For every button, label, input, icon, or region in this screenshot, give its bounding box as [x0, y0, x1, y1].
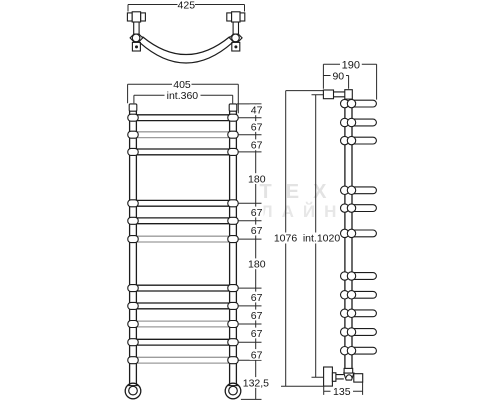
svg-text:67: 67 — [251, 225, 263, 237]
svg-text:67: 67 — [251, 207, 263, 219]
extension line from bar 6 — [238, 238, 261, 240]
side view bar 5 joint balls — [341, 204, 349, 212]
side view bar 3 (capsule) — [350, 137, 376, 144]
front view bar 1 right joint bulge — [228, 114, 238, 121]
side view valve packing nut — [344, 368, 353, 373]
svg-text:190: 190 — [342, 59, 360, 71]
front view bar 7 right joint bulge — [228, 285, 238, 292]
extension line from bar 9 — [238, 323, 261, 325]
front view left rail top cap — [129, 104, 137, 111]
top view hex union nut at x=235.8 — [230, 34, 243, 42]
svg-text:67: 67 — [251, 349, 263, 361]
front view right vertical rail — [230, 111, 237, 384]
side view valve flange — [332, 373, 336, 382]
top view wall plate at x=136.4 — [132, 42, 140, 51]
front view bar 11 left joint bulge — [128, 357, 138, 364]
extension line from bottom of rails — [241, 398, 262, 400]
svg-text:47: 47 — [251, 105, 263, 117]
dimension 135 line — [324, 382, 363, 395]
front view right rail top cap — [229, 104, 237, 111]
side view bar 7 joint balls — [341, 272, 349, 280]
dimension int.1020 text — [304, 233, 341, 244]
top view wall plate at x=235.8 — [232, 42, 240, 51]
front view bar 9 left joint bulge — [128, 321, 138, 328]
dimension label 67 — [250, 292, 264, 303]
side view bar 10 (capsule) — [350, 329, 376, 336]
side view bar 6 joint balls — [341, 229, 349, 237]
dimension 90 line — [323, 76, 348, 89]
side view bar 2 (capsule) — [350, 119, 376, 126]
side view bar 5 (capsule) — [350, 205, 376, 212]
svg-text:67: 67 — [251, 121, 263, 133]
svg-text:67: 67 — [251, 310, 263, 322]
extension line from rail top — [237, 103, 262, 105]
side view bar 4 joint balls — [341, 186, 349, 194]
svg-text:int.360: int.360 — [167, 90, 199, 102]
dimension 405 line — [128, 84, 239, 113]
dimension 1076 vertical line — [281, 91, 323, 387]
dimension label 67 — [250, 349, 264, 360]
extension line from bar 7 — [238, 287, 261, 289]
side view bar 9 (capsule) — [350, 310, 376, 317]
top view hex union nut at x=136.4 — [130, 34, 143, 42]
front view bar 10 left joint bulge — [128, 339, 138, 346]
dimension 190 line — [323, 64, 376, 99]
side view bar 9 joint balls — [341, 309, 349, 317]
dimension label 67 — [250, 310, 264, 321]
side view valve cone body — [344, 373, 354, 380]
side view top wall fitting block — [323, 90, 333, 99]
front view towel bar 11 — [134, 357, 232, 363]
dimension label 67 — [250, 328, 264, 339]
side view valve dome — [346, 375, 352, 378]
front view towel bar 7 — [134, 285, 232, 291]
top view stem pipe at x=136.4 — [134, 22, 139, 34]
side view valve wall block — [324, 367, 333, 386]
front view left vertical rail — [130, 111, 137, 384]
extension line from bar 5 — [238, 220, 261, 222]
svg-text:int.1020: int.1020 — [303, 233, 341, 245]
top view wall T-fitting at x=136.4 — [127, 12, 145, 22]
side view bar 6 (capsule) — [350, 230, 376, 237]
side view bar 1 (capsule) — [350, 100, 376, 107]
front view right dimension chain vertical line — [255, 104, 257, 400]
extension line from bar 8 — [238, 305, 261, 307]
side view top connecting pipe — [334, 92, 345, 97]
front view bar 4 left joint bulge — [128, 200, 138, 207]
front view towel bar 9 — [134, 321, 232, 327]
front view right bottom pipe outlet circle — [225, 383, 241, 399]
extension line from bar 3 — [238, 151, 261, 153]
extension line from bar 2 — [238, 134, 261, 136]
front view bar 5 left joint bulge — [128, 217, 138, 224]
svg-text:180: 180 — [248, 259, 266, 271]
dimension 1076 text — [274, 233, 298, 244]
dimension label 180 — [247, 258, 266, 269]
side view bar 2 joint balls — [341, 118, 349, 126]
svg-text:90: 90 — [332, 70, 344, 82]
side view bar 11 (capsule) — [350, 347, 376, 354]
extension line from bar 4 — [238, 202, 261, 204]
dimension 425 line — [128, 5, 245, 12]
side view bar 1 joint balls — [341, 99, 349, 107]
front view towel bar 6 — [134, 236, 232, 242]
dimension int.360 line — [134, 95, 233, 103]
front view bar 6 right joint bulge — [228, 236, 238, 243]
svg-text:67: 67 — [251, 292, 263, 304]
dimension label 132,5 — [243, 377, 269, 388]
dimension label 180 — [247, 173, 266, 184]
front view bar 7 left joint bulge — [128, 285, 138, 292]
front view bar 10 right joint bulge — [228, 339, 238, 346]
front view bar 8 right joint bulge — [228, 302, 238, 309]
dimension int.1020 vertical line — [312, 95, 324, 378]
side view bar 3 joint balls — [341, 136, 349, 144]
side view wall reference line — [286, 90, 324, 92]
side view bar 8 joint balls — [341, 291, 349, 299]
svg-text:67: 67 — [251, 328, 263, 340]
front view bar 6 left joint bulge — [128, 236, 138, 243]
side view bar 8 (capsule) — [350, 291, 376, 298]
front view towel bar 8 — [134, 303, 232, 309]
svg-text:67: 67 — [251, 140, 263, 152]
front view bar 2 right joint bulge — [228, 131, 238, 138]
front view bar 5 right joint bulge — [228, 217, 238, 224]
front view bar 8 left joint bulge — [128, 302, 138, 309]
side view valve outlet body — [354, 374, 363, 382]
dimension label 67 — [250, 139, 264, 150]
svg-text:135: 135 — [333, 386, 351, 398]
front view bar 9 right joint bulge — [228, 321, 238, 328]
svg-text:ТЕХ: ТЕХ — [260, 181, 341, 203]
svg-text:1076: 1076 — [274, 233, 298, 245]
dimension label 47 — [250, 104, 264, 115]
front view towel bar 5 — [134, 218, 232, 224]
svg-text:ЛАЙН: ЛАЙН — [261, 202, 346, 221]
front view towel bar 3 — [134, 149, 232, 155]
side view valve pipe — [336, 375, 344, 379]
side view vertical rail — [345, 99, 352, 368]
dimension label 67 — [250, 225, 264, 236]
extension line from bar 1 — [238, 117, 261, 119]
front view bar 11 right joint bulge — [228, 357, 238, 364]
front view towel bar 2 — [134, 132, 232, 138]
top view wall T-fitting at x=235.8 — [227, 12, 245, 22]
front view bar 1 left joint bulge — [128, 114, 138, 121]
side view bar 10 joint balls — [341, 328, 349, 336]
extension line from bar 11 — [238, 359, 261, 361]
front view towel bar 1 — [134, 115, 232, 121]
dimension label 67 — [250, 121, 264, 132]
side view elbow block — [345, 90, 353, 99]
dimension label 67 — [250, 207, 264, 218]
front view towel bar 10 — [134, 339, 232, 345]
front view bar 3 left joint bulge — [128, 148, 138, 155]
front view bar 2 left joint bulge — [128, 131, 138, 138]
front view bar 4 right joint bulge — [228, 200, 238, 207]
front view left bottom pipe outlet circle — [125, 383, 141, 399]
front view towel bar 4 — [134, 200, 232, 206]
top view curved towel bar (arc) — [140, 37, 233, 63]
side view bar 4 (capsule) — [350, 187, 376, 194]
svg-text:180: 180 — [248, 173, 266, 185]
extension line from bar 10 — [238, 341, 261, 343]
side view bar 11 joint balls — [341, 347, 349, 355]
side view bar 7 (capsule) — [350, 273, 376, 280]
svg-text:425: 425 — [178, 0, 196, 11]
front view bar 3 right joint bulge — [228, 148, 238, 155]
top view stem pipe at x=235.8 — [233, 22, 238, 34]
svg-text:132,5: 132,5 — [243, 377, 269, 389]
